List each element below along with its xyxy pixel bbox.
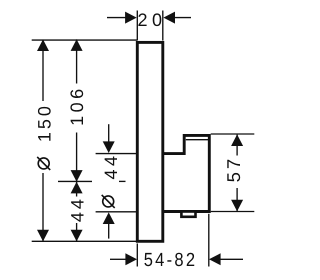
extension line: plate left edge extended down [136, 244, 138, 267]
dimension 44: value label [66, 196, 88, 223]
dimension Ø44: upper line segment [108, 124, 110, 141]
dimension Ø44: lower line segment [108, 224, 110, 239]
extension line: plate bottom edge extended left [32, 240, 137, 242]
dimension 106: bottom arrow [71, 170, 83, 182]
dimension 57: top arrow (points up) [231, 134, 243, 146]
dimension Ø150: value label [32, 101, 55, 173]
extension line: step top edge extended right [211, 133, 255, 135]
dimension Ø44: value label [101, 152, 121, 207]
svg-text:106: 106 [67, 85, 87, 126]
dimension 106: value label [66, 84, 87, 133]
extension line: plate top edge extended left [32, 39, 137, 41]
dimension 20: left tail and arrow [107, 12, 137, 24]
extension line: plate left edge extended up [136, 11, 138, 41]
extension line: body bottom edge extended left of plate [96, 211, 137, 213]
valve axis centerline (left of bowtie) [58, 180, 92, 182]
extension line: body top edge extended left of plate [96, 153, 137, 155]
dimension 44: bottom arrow [71, 230, 83, 242]
dimension Ø44: top arrow (points down) [103, 141, 115, 153]
dimension 44: top arrow (points up, bowtie with 106 bottom arrow) [71, 182, 83, 194]
dimension 44 (lower left): dimension line [76, 182, 78, 242]
dimension 54-82: left tail and arrow [110, 253, 137, 265]
dimension Ø150: dimension line [42, 40, 44, 242]
svg-text:57: 57 [223, 156, 244, 183]
dimension Ø150: top arrow [37, 39, 49, 51]
dimension 57: bottom arrow (points down) [231, 200, 243, 212]
svg-text:44: 44 [68, 196, 88, 222]
extension line: body right edge extended down [208, 214, 210, 267]
dimension Ø150: bottom arrow [37, 230, 49, 242]
extension line: body bottom edge extended right [211, 211, 255, 213]
dimension 57: dimension line [236, 135, 238, 212]
clip tab at body bottom [181, 212, 195, 217]
dimension 57: value label [223, 156, 247, 189]
svg-text:44: 44 [101, 152, 121, 179]
svg-text:54-82: 54-82 [144, 250, 198, 271]
extension line: plate right edge extended up [162, 11, 164, 41]
step detail line inside top step [186, 139, 208, 141]
dimension 20: value label [137, 10, 166, 30]
valve axis centerline (short dash right of Ø44 label) [119, 180, 126, 182]
dimension 20: right arrow and tail [163, 12, 191, 24]
dimension 54-82: right arrow and tail [209, 253, 243, 265]
svg-text:150: 150 [35, 103, 55, 142]
dimension 106: top arrow [71, 39, 83, 51]
dimension 106: dimension line [76, 39, 78, 181]
svg-text:20: 20 [137, 10, 166, 30]
valve body outline (protruding housing) [163, 135, 209, 211]
wall plate (side view, 20 x 150) [137, 42, 163, 241]
dimension Ø44: bottom arrow (points up) [103, 212, 115, 224]
dimension 54-82: value label [144, 250, 198, 271]
